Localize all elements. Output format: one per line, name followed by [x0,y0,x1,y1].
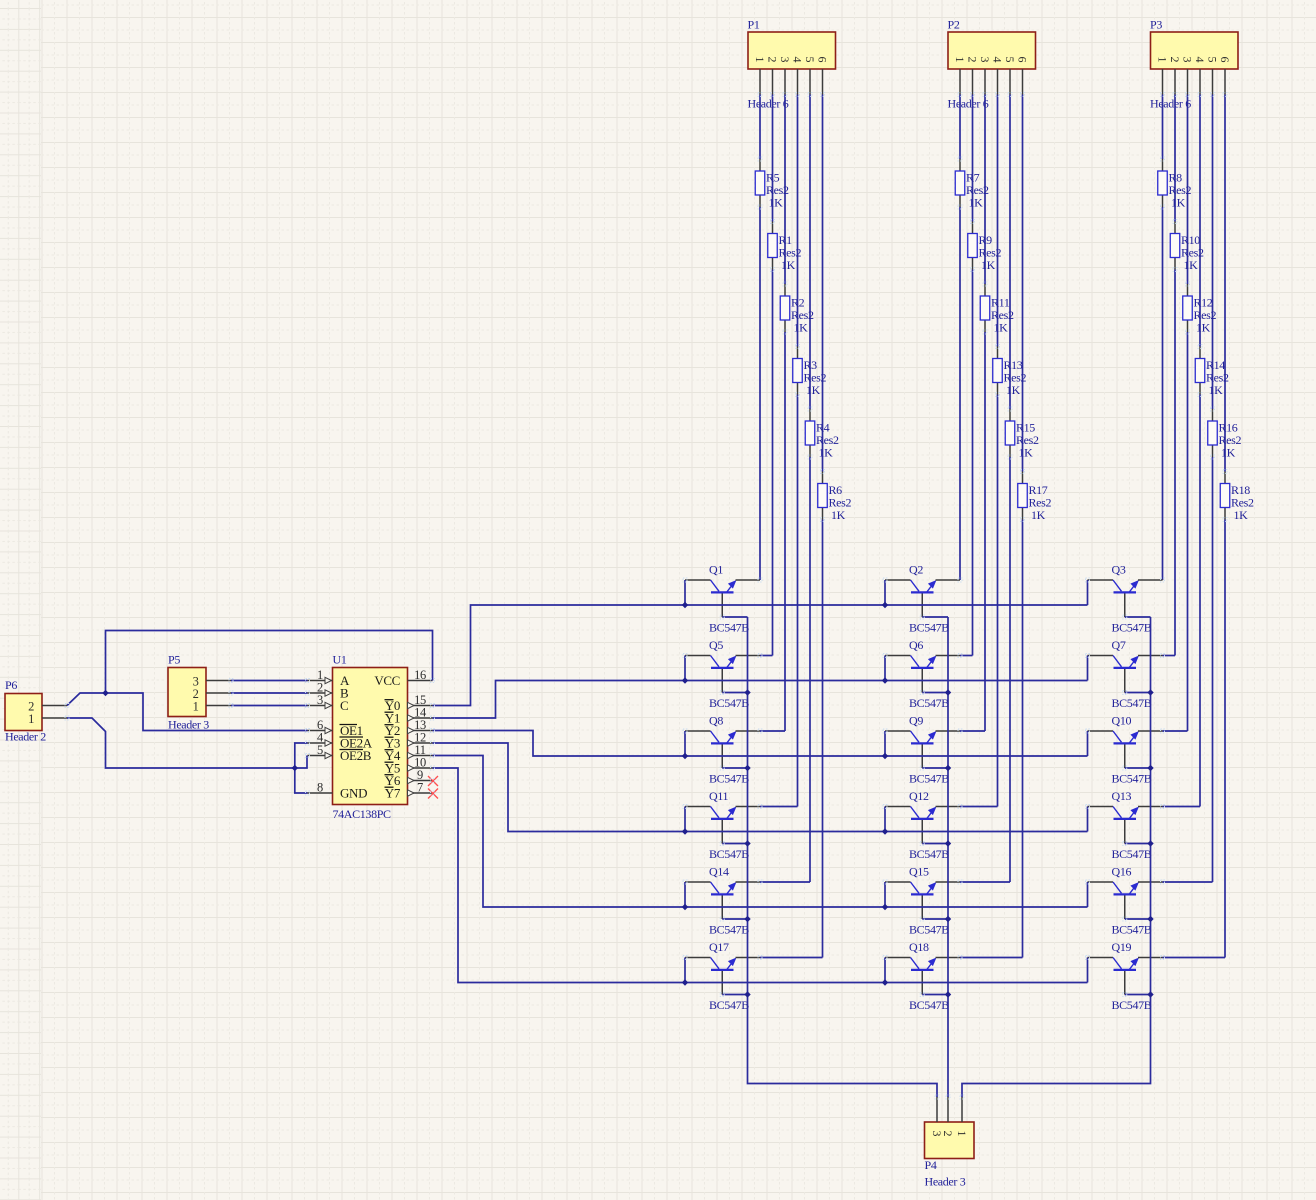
svg-text:1: 1 [753,57,767,63]
wire Q11 emitter to header column [760,806,798,808]
wire net GND branch to U1 GND pin [295,768,308,793]
wire R5 to Q1 emitter [759,207,761,580]
wire Q9 emitter to header column [960,730,985,732]
svg-text:5: 5 [803,57,817,63]
svg-text:Q2: Q2 [909,563,923,577]
junction base bus col 2 row 3 [945,765,951,771]
transistor Q3 (BC547B NPN) [1088,563,1163,635]
svg-text:1K: 1K [819,446,834,460]
wire Q3 base to column bus [1125,616,1151,618]
svg-text:Q19: Q19 [1112,940,1132,954]
svg-text:BC547B: BC547B [1112,621,1152,635]
svg-text:BC547B: BC547B [1112,696,1152,710]
connector P3 (Header 6) [1150,18,1238,111]
wire P1 pin2 to R1 [772,95,774,222]
wire net Y2 from U1 pin to row 3 bus [433,731,1088,757]
U1 pin 7 (Y7) [408,781,433,797]
U1 pin 16 (VCC) [408,668,433,682]
wire Q8 base to column bus [722,767,747,769]
connector P4 (Header 3) [925,1122,975,1189]
wire net Y1 from U1 pin to row 2 bus [433,681,1088,719]
wire column 3 base bus to P4 pin 1 [962,617,1151,1097]
U1 pin name Y2 (overlined) [385,723,401,738]
wire Q16 emitter to header column [1163,881,1213,883]
no-connect X on U1 pin 9 [428,776,438,786]
svg-text:BC547B: BC547B [709,621,749,635]
P1 pin 3 stub [784,69,786,95]
wire net VCC riser to top rail [106,631,433,694]
U1 pin name Y3 (overlined) [385,736,401,751]
wire net Y5 from U1 pin to row 6 bus [433,768,1088,983]
wire R15 to Q15 emitter [1009,457,1011,882]
resistor R7 (Res2 1K) [955,159,989,210]
P4 pin 1 stub [961,1097,963,1122]
junction base bus col 2 row 4 [945,840,951,846]
wire Q16 collector to row bus [1087,882,1089,907]
svg-text:Q13: Q13 [1112,789,1132,803]
transistor Q5 (BC547B NPN) [685,638,760,710]
wire net Y3 from U1 pin to row 4 bus [433,743,1088,832]
svg-text:Q16: Q16 [1112,865,1132,879]
wire Q16 base to column bus [1125,918,1151,920]
junction row 4 col 2 [882,828,888,834]
wire R18 to Q19 emitter [1224,520,1226,958]
wire R10 to Q7 emitter [1174,270,1176,656]
svg-text:BC547B: BC547B [1112,847,1152,861]
svg-text:1: 1 [28,712,34,726]
pin hotspot markers [65,93,1227,1100]
wire P2 pin4 to R13 [997,95,999,347]
wire P2 pin5 to R15 [1009,95,1011,410]
svg-text:Header 6: Header 6 [748,97,789,111]
wire P3 pin6 to R18 [1224,95,1226,472]
wire Q19 base to column bus [1125,994,1151,996]
P3 pin 3 stub [1187,69,1189,95]
svg-text:Header 3: Header 3 [168,718,209,732]
svg-text:1K: 1K [1196,321,1211,335]
transistor Q7 (BC547B NPN) [1088,638,1163,710]
wire Q15 collector to row bus [884,882,886,907]
wire Q15 emitter to header column [960,881,1010,883]
svg-text:2: 2 [941,1131,955,1137]
svg-text:Q14: Q14 [709,865,729,879]
svg-text:BC547B: BC547B [1112,772,1152,786]
wire Q11 collector to row bus [684,807,686,832]
wire P1 pin4 to R3 [797,95,799,347]
svg-text:Header 3: Header 3 [925,1175,966,1189]
U1 pin 13 (Y2) [408,718,433,734]
wire R3 to Q11 emitter [797,395,799,807]
wire Q2 collector to row bus [884,580,886,605]
resistor R12 (Res2 1K) [1183,284,1217,335]
junction base bus col 3 row 6 [1147,991,1153,997]
wire R6 to Q17 emitter [822,520,824,958]
svg-text:5: 5 [1206,57,1220,63]
resistor R11 (Res2 1K) [980,284,1014,335]
svg-text:Header 6: Header 6 [1150,97,1191,111]
svg-text:16: 16 [414,668,426,682]
wire net VCC from P6 pin2 [67,693,106,706]
wire P3 pin1 to R8 [1162,95,1164,160]
svg-text:Q10: Q10 [1112,714,1132,728]
wire P1 pin6 to R6 [822,95,824,472]
transistor Q9 (BC547B NPN) [885,714,960,786]
junction row 6 col 1 [682,979,688,985]
resistor R9 (Res2 1K) [968,222,1002,273]
transistor Q19 (BC547B NPN) [1088,940,1163,1012]
wire Q14 collector to row bus [684,882,686,907]
svg-text:Q17: Q17 [709,940,729,954]
P1 pin 4 stub [797,69,799,95]
junction row 5 col 1 [682,904,688,910]
wire Q8 collector to row bus [684,731,686,756]
svg-text:Q9: Q9 [909,714,923,728]
wire Q14 base to column bus [722,918,747,920]
U1 pin 3 (C) [308,693,333,709]
wire Q5 base to column bus [722,692,747,694]
svg-text:BC547B: BC547B [709,772,749,786]
wire Q6 collector to row bus [884,656,886,681]
wire Q19 emitter to header column [1163,957,1226,959]
wire Q17 base to column bus [722,994,747,996]
junction base bus col 1 row 2 [744,689,750,695]
junction base bus col 2 row 5 [945,916,951,922]
P6 pin 1 stub [42,717,67,719]
P2 pin 6 stub [1022,69,1024,95]
svg-text:1K: 1K [969,196,984,210]
svg-text:BC547B: BC547B [909,998,949,1012]
U1 pin name Y0 (overlined) [385,698,401,713]
junction base bus col 3 row 3 [1147,765,1153,771]
wire R12 to Q10 emitter [1187,332,1189,731]
connector P1 (Header 6) [748,18,836,111]
svg-text:1: 1 [1156,57,1170,63]
svg-text:P6: P6 [5,678,17,692]
U1 pin 14 (Y1) [408,706,433,722]
U1 pin name Y5 (overlined) [385,761,401,776]
junction base bus col 2 row 2 [945,689,951,695]
wire P1 pin5 to R4 [809,95,811,410]
junction base bus col 1 row 5 [744,916,750,922]
wire R11 to Q9 emitter [984,332,986,731]
wire P3 pin5 to R16 [1212,95,1214,410]
svg-text:Q8: Q8 [709,714,723,728]
resistor R8 (Res2 1K) [1158,159,1192,210]
junction row 1 col 1 [682,602,688,608]
junction row 5 col 2 [882,904,888,910]
junction base bus col 1 row 4 [744,840,750,846]
wire column 1 base bus to P4 pin 3 [748,617,938,1097]
resistor R13 (Res2 1K) [993,347,1027,398]
connector P6 (Header 2) [5,678,46,744]
svg-text:6: 6 [1016,57,1030,63]
transistor Q16 (BC547B NPN) [1088,865,1163,937]
resistor R5 (Res2 1K) [755,159,789,210]
svg-text:3: 3 [978,57,992,63]
wire net GND from P6 pin1 [67,718,295,768]
svg-text:P2: P2 [948,18,960,32]
resistor R16 (Res2 1K) [1208,409,1242,460]
wire net Y0 from U1 pin to row 1 bus [433,605,1088,706]
junction row 4 col 1 [682,828,688,834]
svg-text:P4: P4 [925,1158,937,1172]
U1 pin 9 (Y6) [408,768,433,784]
svg-text:6: 6 [816,57,830,63]
svg-text:4: 4 [991,57,1005,63]
wire Q18 emitter to header column [960,957,1023,959]
svg-text:Header 2: Header 2 [5,730,46,744]
svg-text:7: 7 [417,781,423,795]
svg-text:GND: GND [340,786,367,801]
junction row 3 col 2 [882,753,888,759]
IC U1 74AC138PC decoder [333,653,408,822]
svg-text:2: 2 [966,57,980,63]
svg-text:BC547B: BC547B [709,847,749,861]
svg-text:Q18: Q18 [909,940,929,954]
wire R1 to Q5 emitter [772,270,774,656]
svg-text:C: C [340,698,348,713]
svg-text:BC547B: BC547B [909,923,949,937]
svg-text:Q6: Q6 [909,638,923,652]
svg-text:1K: 1K [1221,446,1236,460]
wire R16 to Q16 emitter [1212,457,1214,882]
junction base bus col 3 row 4 [1147,840,1153,846]
wire Q14 emitter to header column [760,881,810,883]
svg-text:1K: 1K [1234,508,1249,522]
svg-text:74AC138PC: 74AC138PC [333,807,392,821]
svg-text:BC547B: BC547B [1112,923,1152,937]
svg-text:Q11: Q11 [709,789,729,803]
svg-text:1K: 1K [1209,383,1224,397]
P1 pin 2 stub [772,69,774,95]
svg-text:BC547B: BC547B [909,772,949,786]
resistor R2 (Res2 1K) [780,284,814,335]
U1 pin 15 (Y0) [408,693,433,709]
svg-text:3: 3 [778,57,792,63]
svg-text:Q3: Q3 [1112,563,1126,577]
wire net GND branch to OE2B [295,756,307,769]
wire Q12 collector to row bus [884,807,886,832]
U1 pin name Y1 (overlined) [385,711,401,726]
wire R7 to Q2 emitter [959,207,961,580]
wire net Y4 from U1 pin to row 5 bus [433,756,1088,908]
P1 pin 1 stub [759,69,761,95]
transistor Q6 (BC547B NPN) [885,638,960,710]
wire P3 pin3 to R12 [1187,95,1189,285]
svg-text:1: 1 [193,700,199,714]
wire R9 to Q6 emitter [972,270,974,656]
wire Q6 base to column bus [922,692,948,694]
transistor Q18 (BC547B NPN) [885,940,960,1012]
P3 pin 2 stub [1174,69,1176,95]
svg-text:Q12: Q12 [909,789,929,803]
junction VCC at (105.5,693) [102,690,108,696]
U1 pin name OE2B (overlined) [340,748,372,763]
P2 pin 4 stub [997,69,999,95]
U1 pin 6 (OE1) [308,718,333,734]
wire R13 to Q12 emitter [997,395,999,807]
wire P2 pin6 to R17 [1022,95,1024,472]
P2 pin 3 stub [984,69,986,95]
wire P5 pin1 to U1 C [231,705,308,707]
transistor Q14 (BC547B NPN) [685,865,760,937]
U1 pin 2 (B) [308,681,333,697]
P5 pin 2 stub [206,692,231,694]
wire column 2 base bus to P4 pin 2 [947,617,949,1097]
svg-text:4: 4 [1193,57,1207,63]
wire Q18 collector to row bus [884,958,886,983]
svg-text:Q5: Q5 [709,638,723,652]
wire P2 pin1 to R7 [959,95,961,160]
transistor Q11 (BC547B NPN) [685,789,760,861]
P4 pin 3 stub [936,1097,938,1122]
junction GND at (294.8,768) [292,765,298,771]
junction base bus col 3 row 5 [1147,916,1153,922]
wire Q10 base to column bus [1125,767,1151,769]
wire Q7 collector to row bus [1087,656,1089,681]
svg-text:BC547B: BC547B [709,696,749,710]
wire Q2 base to column bus [922,616,948,618]
wire P5 pin3 to U1 A [231,680,308,682]
P3 pin 1 stub [1162,69,1164,95]
junction base bus col 1 row 3 [744,765,750,771]
wire Q1 collector to row bus [684,580,686,605]
svg-text:1K: 1K [1019,446,1034,460]
U1 pin 5 (OE2B) [308,743,333,759]
svg-text:8: 8 [317,781,323,795]
transistor Q13 (BC547B NPN) [1088,789,1163,861]
svg-text:5: 5 [317,743,323,757]
svg-text:1: 1 [955,1131,969,1137]
U1 pin 1 (A) [308,668,333,684]
svg-text:BC547B: BC547B [709,998,749,1012]
no-connect X on U1 pin 7 [428,789,438,799]
transistor Q2 (BC547B NPN) [885,563,960,635]
wire R17 to Q18 emitter [1022,520,1024,958]
resistor R4 (Res2 1K) [805,409,839,460]
P5 pin 1 stub [206,705,231,707]
svg-text:1K: 1K [981,258,996,272]
junction base bus col 2 row 6 [945,991,951,997]
connector P2 (Header 6) [948,18,1036,111]
wire Q5 emitter to header column [760,655,773,657]
wire Q10 collector to row bus [1087,731,1089,756]
junction row 6 col 2 [882,979,888,985]
wire Q13 collector to row bus [1087,807,1089,832]
svg-text:Q15: Q15 [909,865,929,879]
junction row 2 col 2 [882,677,888,683]
svg-text:1K: 1K [806,383,821,397]
svg-text:P3: P3 [1150,18,1162,32]
wire Q9 base to column bus [922,767,948,769]
svg-text:Q1: Q1 [709,563,723,577]
svg-text:BC547B: BC547B [909,847,949,861]
U1 pin name Y7 (overlined) [385,786,401,801]
P3 pin 4 stub [1199,69,1201,95]
svg-text:OE2B: OE2B [340,748,372,763]
resistor R17 (Res2 1K) [1018,472,1052,523]
svg-text:1K: 1K [769,196,784,210]
P2 pin 5 stub [1009,69,1011,95]
svg-text:Q7: Q7 [1112,638,1126,652]
wire Q13 emitter to header column [1163,806,1201,808]
wire R2 to Q8 emitter [784,332,786,731]
wire Q13 base to column bus [1125,843,1151,845]
junction base bus col 3 row 2 [1147,689,1153,695]
svg-text:BC547B: BC547B [909,621,949,635]
U1 pin 11 (Y4) [408,743,433,759]
svg-text:P5: P5 [168,653,180,667]
transistor Q12 (BC547B NPN) [885,789,960,861]
svg-text:1: 1 [953,57,967,63]
connector P5 (Header 3) [168,653,209,732]
junction base bus col 1 row 6 [744,991,750,997]
P6 pin 2 stub [42,705,67,707]
resistor R18 (Res2 1K) [1220,472,1254,523]
P1 pin 5 stub [809,69,811,95]
wire net GND branch to OE2A [295,743,308,768]
wire Q10 emitter to header column [1163,730,1188,732]
wire Q3 collector to row bus [1087,580,1089,605]
svg-text:1K: 1K [994,321,1009,335]
resistor R6 (Res2 1K) [818,472,852,523]
wire P3 pin4 to R14 [1199,95,1201,347]
wire Q17 emitter to header column [760,957,823,959]
resistor R15 (Res2 1K) [1005,409,1039,460]
svg-text:6: 6 [1218,57,1232,63]
transistor Q8 (BC547B NPN) [685,714,760,786]
svg-text:2: 2 [1168,57,1182,63]
U1 pin 12 (Y3) [408,731,433,747]
U1 pin 4 (OE2A) [308,731,333,747]
svg-text:1K: 1K [831,508,846,522]
wire Q6 emitter to header column [960,655,973,657]
wire R14 to Q13 emitter [1199,395,1201,807]
svg-text:BC547B: BC547B [1112,998,1152,1012]
transistor Q10 (BC547B NPN) [1088,714,1163,786]
resistor R10 (Res2 1K) [1170,222,1204,273]
resistor R14 (Res2 1K) [1195,347,1229,398]
svg-text:3: 3 [317,693,323,707]
svg-text:P1: P1 [748,18,760,32]
transistor Q15 (BC547B NPN) [885,865,960,937]
U1 pin 8 (GND) [308,781,333,795]
svg-text:2: 2 [766,57,780,63]
svg-text:4: 4 [791,57,805,63]
U1 pin 10 (Y5) [408,756,433,772]
wire R4 to Q14 emitter [809,457,811,882]
wire P5 pin2 to U1 B [231,692,308,694]
wire Q19 collector to row bus [1087,958,1089,983]
P4 pin 2 stub [947,1097,949,1122]
svg-text:1K: 1K [1031,508,1046,522]
P2 pin 2 stub [972,69,974,95]
svg-text:BC547B: BC547B [709,923,749,937]
P3 pin 5 stub [1212,69,1214,95]
wire Q12 emitter to header column [960,806,998,808]
wire Q1 base to column bus [722,616,747,618]
wire Q11 base to column bus [722,843,747,845]
svg-text:Header 6: Header 6 [948,97,989,111]
svg-text:VCC: VCC [374,673,400,688]
wire P1 pin1 to R5 [759,95,761,160]
resistor R3 (Res2 1K) [793,347,827,398]
svg-text:3: 3 [1181,57,1195,63]
U1 pin name Y6 (overlined) [385,773,401,788]
svg-text:BC547B: BC547B [909,696,949,710]
wire Q12 base to column bus [922,843,948,845]
wire Q7 base to column bus [1125,692,1151,694]
